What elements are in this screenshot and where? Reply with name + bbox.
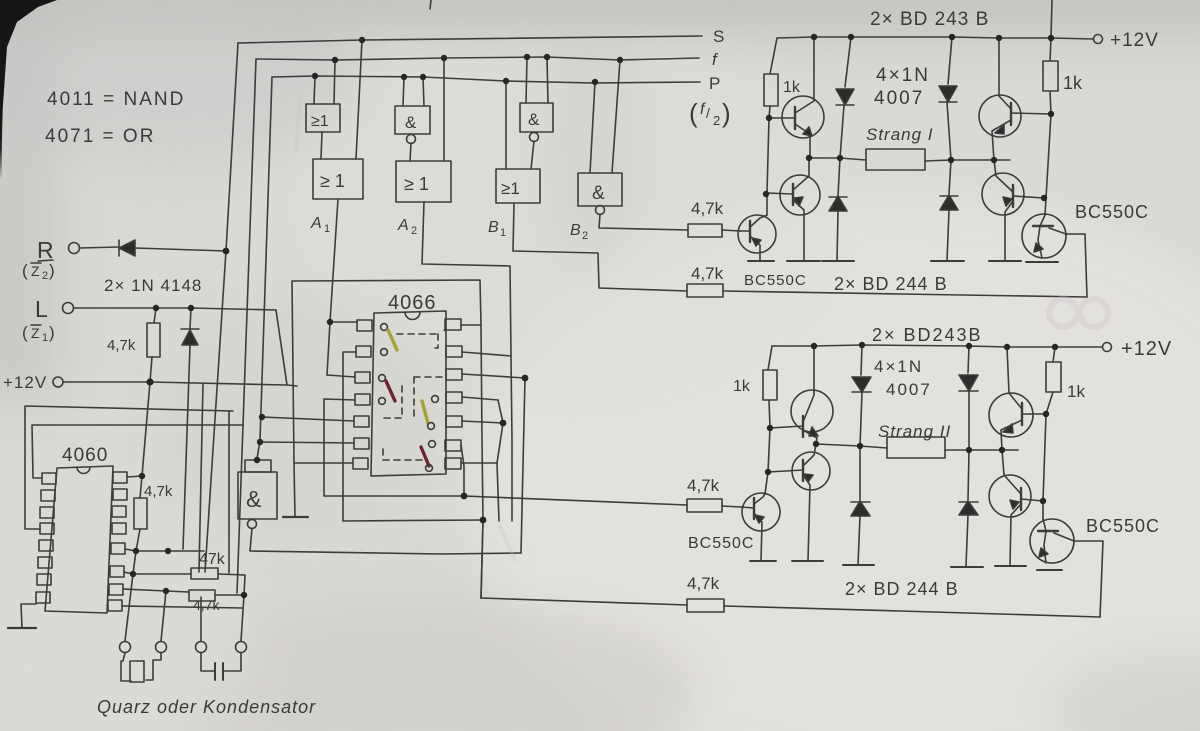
svg-text:A: A (310, 215, 322, 232)
node R/S junction (223, 248, 230, 255)
wire W: ground, pin L7, up and over to pin R1, down to J520 (292, 280, 483, 598)
faint bleedthrough marks (1049, 299, 1108, 327)
4066 switch 1 contact (381, 324, 388, 331)
4060 pin left 5 (39, 540, 53, 551)
label 4,7k upper stage II (687, 476, 720, 495)
label B2 (570, 222, 588, 242)
ground bar under W (283, 516, 308, 518)
wire mid rail stage I right (925, 160, 1010, 161)
4066 switch 4 contact (379, 398, 386, 405)
wire row574: pin R6 to 47k to corner (124, 572, 191, 574)
wire S to A1 (356, 40, 362, 159)
svg-text:): ) (722, 98, 731, 128)
transistor Q3 BD243B right (979, 95, 1021, 137)
svg-text:BC550C: BC550C (744, 272, 807, 289)
4060 pin left 3 (40, 507, 54, 518)
node P to L5/L6 (259, 414, 265, 420)
feedback rectangle 1: pin L4 left, up, right to S bus (25, 406, 233, 529)
node row496 (461, 493, 468, 500)
node stage II inner (767, 425, 773, 431)
node R5 junction (500, 420, 507, 427)
svg-text:4×1N: 4×1N (874, 357, 923, 376)
wire P bus to pin L6 (260, 442, 354, 443)
wire 4060 pin R1 to +12V riser (127, 476, 142, 477)
gate G1 OR (>=1) row1 (306, 104, 340, 132)
svg-text:): ) (49, 261, 55, 280)
resistor R_4060 4,7k (144, 483, 173, 500)
emitter tick D4 (931, 260, 964, 262)
transistor Q4' BD244B right (989, 475, 1031, 517)
wire G3 out to B1 (531, 141, 534, 169)
4060 pin right 1 (113, 472, 127, 483)
transistor Q1' BD243B (791, 390, 833, 432)
terminal circle 2 (156, 642, 167, 653)
svg-text:Strang II: Strang II (878, 422, 951, 441)
label 4x1N 4007 stage II (874, 357, 923, 376)
svg-text:≥1: ≥1 (311, 113, 329, 130)
diode at L line (190, 308, 191, 328)
gate A1 OR (>=1) row2 (313, 159, 363, 199)
diode D2' stage II (859, 446, 861, 500)
label A1 (310, 215, 330, 235)
svg-text:BC550C: BC550C (1086, 516, 1160, 536)
svg-text:Z: Z (31, 263, 40, 279)
input +12V terminal left (3, 373, 47, 392)
wire 4060 ground: bottom left pin to ground (21, 604, 36, 628)
wire +12V rail stage I (777, 37, 1093, 39)
label 4x1N 4007 stage I (876, 65, 930, 86)
svg-text:≥1: ≥1 (501, 179, 520, 198)
svg-text:4007: 4007 (874, 88, 924, 109)
wire crystal terminal 1 riser (125, 574, 133, 641)
note 4071 = OR (45, 126, 155, 147)
label B1 (488, 219, 506, 239)
wire +12V riser (142, 382, 150, 476)
wire diode to junction (135, 248, 226, 251)
svg-text:1k: 1k (733, 378, 751, 395)
4066 pin L4 (355, 394, 370, 405)
node +12V tap (146, 378, 153, 385)
wire 1k right down collector bus (1045, 114, 1051, 215)
4066 switch 5 lever (yellow) (422, 401, 428, 423)
resistor 4,7k stage II upper (687, 499, 722, 512)
svg-text:A: A (397, 217, 409, 234)
4060 pin left 8 (36, 592, 50, 603)
gate A2 OR (>=1) row2 (396, 161, 451, 202)
wire pin L4 left and down to row496 (324, 399, 464, 496)
ground bar 4060 (8, 627, 36, 629)
4066 pin L3 (355, 372, 370, 383)
svg-text:Z: Z (31, 325, 40, 341)
svg-text:S: S (713, 27, 724, 46)
wire P bus vertical (257, 77, 272, 459)
wire lower row to Q5' riser (724, 606, 1100, 617)
svg-text:4,7k: 4,7k (687, 476, 720, 495)
wire pin R1 stub (461, 324, 481, 326)
wire G2 out to A2 (410, 143, 411, 161)
emitter tick Q2' (792, 560, 823, 562)
svg-text:4,7k: 4,7k (144, 483, 173, 500)
wire L corner down (276, 310, 287, 385)
svg-text:+12V: +12V (3, 373, 47, 392)
node R3 riser top (522, 375, 529, 382)
wire base bus stage II left (765, 428, 770, 494)
gate G4 AND (&) bottom-left (238, 472, 277, 519)
wire P to B2 (590, 82, 595, 173)
wire f to G3 a (526, 57, 527, 103)
feedback rect 1 drop to 47k row (228, 411, 230, 573)
svg-text:4,7k: 4,7k (691, 199, 724, 218)
svg-text:2: 2 (582, 230, 588, 242)
wire L input (74, 308, 276, 310)
G4 input bracket (245, 460, 271, 472)
emitter tick Q5 (1026, 261, 1058, 263)
node stage II rail (811, 343, 817, 349)
svg-text:(: ( (22, 323, 28, 342)
emitter tick Q4 (989, 260, 1021, 262)
label 2x BD243B stage I (870, 9, 989, 30)
4066 pin R5 (446, 416, 462, 427)
4060 pin right 6 (110, 566, 124, 577)
wire row551: pin R5 to S bus (125, 549, 204, 551)
crystal X1 (121, 653, 131, 681)
wire pin R5 stub (462, 421, 503, 423)
resistor 1k stage II right (1053, 347, 1055, 362)
wire f to G3 b (547, 57, 548, 103)
4060 pin right 5 (111, 543, 125, 554)
wire P bus to pin L5 (262, 417, 354, 421)
svg-text:+12V: +12V (1121, 338, 1172, 360)
svg-text:4,7k: 4,7k (193, 597, 220, 613)
emitter tick Q6' (750, 560, 776, 562)
wire pin R2 stub to A2 line (462, 352, 511, 356)
4066 switch 6 contact a (429, 441, 436, 448)
wire P to G2 a (403, 77, 404, 106)
wire +12V row to pin L3 area (L bottom corner) (287, 385, 297, 386)
svg-text:1: 1 (324, 223, 330, 235)
load box stage I (866, 149, 925, 170)
4060 pin left 6 (38, 557, 52, 568)
wire pin R6 stub down to row496 (461, 445, 464, 496)
4060 pin right 4 (112, 523, 126, 534)
transistor Q6' BC550C left (742, 493, 780, 531)
wire rail corner down to 1k stage II (768, 346, 772, 370)
svg-text:B: B (488, 219, 499, 236)
label 4,7k lower (691, 264, 724, 283)
svg-text:2× BD 244 B: 2× BD 244 B (834, 274, 948, 294)
transistor Q6 BC550C left (738, 215, 776, 253)
label BC550C left (744, 272, 807, 289)
svg-text:&: & (592, 183, 605, 204)
svg-text:(: ( (689, 98, 698, 128)
4066 switch 1 lever (yellow) (388, 330, 397, 350)
diode D3 stage I (948, 37, 952, 84)
node P label (709, 74, 720, 93)
wire row595: pin R7 to 4,7k to corner (123, 589, 189, 592)
svg-text:4,7k: 4,7k (691, 264, 724, 283)
4060 pin left 4 (40, 523, 54, 534)
terminal circle 1 (120, 642, 131, 653)
4066 pin R6 (445, 440, 461, 451)
note 4011 = NAND (47, 89, 185, 110)
transistor Q1 BD243B (782, 96, 824, 138)
IC U2 4066 body (371, 311, 446, 476)
wire f bus top (256, 57, 699, 60)
node S to A1 (359, 37, 365, 43)
wire G4 output down and right to & riser (250, 528, 521, 554)
4060 pin left 2 (41, 490, 55, 501)
svg-text:&: & (528, 110, 540, 129)
label 2x 1N4148 (104, 276, 202, 295)
svg-text:2× BD 243 B: 2× BD 243 B (870, 9, 989, 30)
gate B1 OR (>=1) row2 (496, 169, 540, 203)
label Strang I (866, 125, 934, 144)
4066 switch 3 lever (red) (386, 381, 395, 401)
label 2x BD244B (834, 274, 948, 294)
4060 pin left 7 (37, 574, 51, 585)
4066 pin R1 (445, 319, 461, 330)
label Quarz oder Kondensator (97, 697, 316, 717)
svg-text:4060: 4060 (62, 445, 108, 466)
node f taps (332, 57, 338, 63)
4060 pin right 3 (112, 506, 126, 517)
wire bus mid vertical (to 47k) (199, 383, 203, 572)
4066 switch 6 contact b (426, 465, 433, 472)
wire row598 to stage II lower 4,7k (481, 598, 687, 605)
wire pin R8 right (122, 606, 242, 608)
capacitor C1 (201, 653, 215, 671)
wire f to B2 (612, 60, 620, 173)
4060 pin left 1 (42, 473, 56, 484)
svg-text:): ) (49, 323, 55, 342)
diode D1' stage II (861, 345, 862, 375)
wire L bottom to +12V row (150, 382, 287, 385)
svg-text:4,7k: 4,7k (687, 574, 720, 593)
svg-text:BC550C: BC550C (688, 535, 754, 552)
node P taps (312, 73, 318, 79)
4060 pin right 2 (113, 489, 127, 500)
transistor Q2 BD244B (780, 175, 820, 215)
emitter tick Q6 (748, 260, 774, 262)
svg-text:4011 = NAND: 4011 = NAND (47, 89, 185, 110)
4066 switch 5 contact a (432, 396, 439, 403)
svg-text:4×1N: 4×1N (876, 65, 930, 86)
transistor Q5' BC550C right (1030, 519, 1074, 563)
emitter tick Q2 (787, 260, 820, 262)
G4 output circle (248, 520, 257, 529)
terminal circle 4 (236, 642, 247, 653)
svg-text:2× BD243B: 2× BD243B (872, 325, 983, 345)
diode D4' stage II (968, 450, 969, 500)
resistor 1k stage I right (1050, 38, 1051, 61)
4066 center dashed net (414, 376, 446, 378)
4066 switch 3 contact (379, 375, 386, 382)
svg-text:&: & (405, 113, 417, 132)
4066 pin R2 (446, 346, 462, 357)
transistor Q4 BD244B right (982, 173, 1024, 215)
4066 switch 2 contact (381, 349, 388, 356)
emitter tick Q5' (1037, 569, 1062, 571)
wire P to G1 (314, 76, 315, 104)
svg-text:B: B (570, 222, 581, 239)
input R terminal (37, 237, 54, 263)
4066 switch 3 dashed net (382, 386, 402, 418)
wire A1 to pins L1/L3 (330, 321, 357, 323)
wire top stub above rail (1051, 0, 1052, 38)
label BC550C right (1075, 202, 1149, 222)
label 4,7k lower stage II (687, 574, 720, 593)
transistor Q2' BD244B (792, 452, 830, 490)
label 4,7k upper (691, 199, 724, 218)
wire P to G2 b (423, 77, 424, 106)
4066 pin L6 (354, 438, 369, 449)
4066 pin L5 (354, 416, 369, 427)
svg-text:Quarz oder Kondensator: Quarz oder Kondensator (97, 697, 316, 717)
4060 pin right 8 (108, 600, 122, 611)
wire J520 drop to row598 (481, 520, 483, 598)
gate B2 AND (&) (578, 173, 622, 206)
svg-text:L: L (35, 296, 48, 322)
emitter tick D2 (822, 260, 854, 262)
resistor 47k (199, 551, 226, 568)
wire diode L down (183, 345, 190, 549)
svg-text:+12V: +12V (1110, 30, 1159, 51)
wire mid rail stage II left (816, 444, 887, 448)
wire B2 output to 4,7k stage I upper (599, 214, 688, 230)
4066 switch 6 lever (red) (421, 447, 429, 466)
wire +12V rail stage II (772, 345, 1102, 347)
label BC550C left stage II (688, 535, 754, 552)
wire Q5 base from lower 4,7k riser (1066, 234, 1087, 297)
resistor 1k stage I left (764, 74, 778, 106)
terminal +12V stage II (1103, 343, 1112, 352)
diode D2 stage I (838, 158, 840, 196)
diode D_R 1N4148 (119, 240, 135, 256)
svg-text:2: 2 (713, 113, 720, 128)
svg-text:BC550C: BC550C (1075, 202, 1149, 222)
svg-text:1: 1 (500, 227, 506, 239)
wire cap1 riser (133, 551, 136, 574)
svg-text:/: / (706, 105, 710, 121)
gate G3 AND (&) row1 (520, 103, 553, 132)
wire pin L2 left and down to J520 row (343, 352, 483, 521)
svg-text:≥ 1: ≥ 1 (404, 174, 429, 194)
4066 bottom dashed net (383, 459, 427, 461)
node stage I inner (766, 115, 772, 121)
resistor 4,7k lower (193, 597, 220, 613)
node L taps (153, 305, 159, 311)
wire A2 output: down, right, down to 4066 pin R2 and on to node J520 (422, 202, 512, 521)
wire Q5' to lower 4,7k riser (1074, 541, 1103, 617)
4066 pin R7 (445, 458, 461, 469)
wire pin R4 stub (462, 397, 498, 400)
label Strang II (878, 422, 951, 441)
emitter tick D4' (951, 566, 983, 568)
transistor Q3' BD243B right (989, 393, 1033, 437)
node stage I rail (811, 34, 817, 40)
IC U3 4060 label (62, 445, 108, 466)
svg-text:2: 2 (42, 270, 48, 282)
node f/2 label (689, 98, 731, 128)
IC U3 4060 body (45, 466, 113, 613)
wire riser R4-R5-R7 (497, 400, 503, 521)
node A1 branch (327, 319, 333, 325)
resistor 4,7k stage II lower (687, 599, 724, 612)
wire B1 output: down, right, down, right to 4,7k stage I lower (513, 203, 687, 291)
terminal circle 3 (196, 642, 207, 653)
4066 pin R4 (446, 392, 462, 403)
wire S/R bus vertical (205, 43, 238, 572)
svg-text:4071 = OR: 4071 = OR (45, 126, 155, 147)
wire lower row to Q5 riser (723, 291, 1087, 297)
svg-text:R: R (37, 237, 54, 263)
wire rail corner down to 1k (770, 38, 777, 74)
wire & riser up from row551 (521, 378, 525, 553)
label 2x BD243B stage II (872, 325, 983, 345)
resistor 4,7k pullup L (107, 337, 136, 354)
wire P to B1 (505, 81, 507, 169)
wire pin R3 stub to & riser (462, 374, 525, 378)
diode D3' stage II (968, 346, 969, 373)
emitter tick D2' (843, 564, 874, 566)
4066 switch 1 dashed net (397, 333, 438, 335)
wire R input (80, 247, 118, 248)
svg-text:(: ( (22, 261, 28, 280)
wire mid rail stage I left (809, 158, 866, 160)
4066 switch 5 contact b (428, 423, 435, 430)
wire 1k right down collector bus stage II (1043, 414, 1046, 519)
diode D1 stage I (845, 37, 851, 87)
transistor Q5 BC550C right (1022, 214, 1066, 258)
wire W branch to pin L7 (294, 462, 353, 464)
svg-text:2× 1N 4148: 2× 1N 4148 (104, 276, 202, 295)
emitter tick Q4' (995, 565, 1026, 567)
wire cap terminal 3 riser (200, 597, 202, 641)
svg-text:P: P (709, 74, 720, 93)
wire +12V left (63, 381, 150, 383)
wire P bus top (272, 76, 700, 83)
wire f bus vertical (237, 59, 256, 593)
load box stage II (887, 437, 945, 458)
svg-text:1k: 1k (783, 79, 801, 96)
dark photo corner top-left (0, 0, 57, 147)
svg-text:&: & (246, 486, 261, 512)
input L terminal (35, 296, 48, 322)
label BC550C right stage II (1086, 516, 1160, 536)
4066 pin R3 (446, 369, 462, 380)
node 4060 resistor taps (139, 473, 145, 479)
4060 pin right 7 (109, 584, 123, 595)
svg-text:Strang I: Strang I (866, 125, 934, 144)
4066 pin L1 (357, 320, 372, 331)
4066 pin L7 (353, 458, 368, 469)
node J520 (480, 517, 487, 524)
IC U2 notch (405, 312, 420, 320)
IC U2 4066 label (388, 292, 437, 314)
svg-text:2: 2 (411, 225, 417, 237)
svg-text:4,7k: 4,7k (107, 337, 136, 354)
wire cap terminal 4 riser (241, 595, 244, 641)
svg-text:2× BD 244 B: 2× BD 244 B (845, 579, 959, 599)
wire G1 out to A1 (321, 132, 322, 159)
svg-text:47k: 47k (199, 551, 226, 568)
svg-text:≥ 1: ≥ 1 (320, 171, 345, 191)
label 2x BD244B stage II (845, 579, 959, 599)
svg-text:1k: 1k (1063, 73, 1083, 93)
IC U3 notch (77, 467, 90, 474)
svg-text:4007: 4007 (886, 380, 932, 399)
wire pin R7 stub (461, 462, 497, 464)
